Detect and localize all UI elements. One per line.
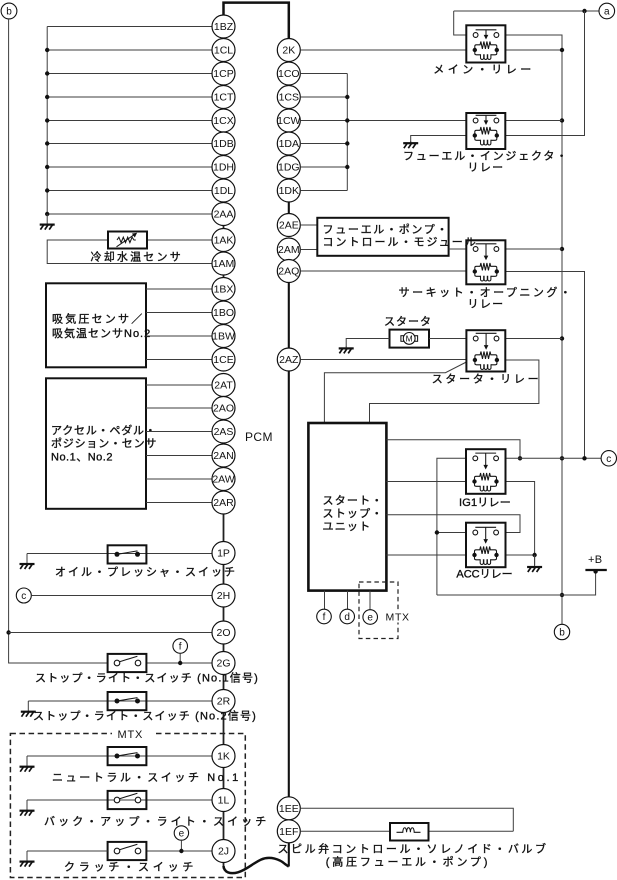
label 吸気温センサNo.2 (52, 326, 151, 340)
label フューエル・インジェクタ・ (403, 150, 569, 163)
svg-text:1DL: 1DL (214, 185, 233, 197)
wire sensor-ground row y=167 (47, 166, 212, 168)
wire intake sensor to pin y=359.5 (146, 359, 212, 361)
svg-text:M: M (406, 334, 413, 344)
wire main relay left contact feed from node a line (454, 11, 467, 35)
ground (neutral switch) (20, 756, 35, 772)
svg-text:2AA: 2AA (214, 209, 234, 221)
wire f stem (179, 653, 181, 663)
relay: fuel injector relay (466, 113, 505, 149)
svg-text:ユニット: ユニット (323, 521, 372, 533)
node 1BX (PCM pin) (212, 278, 235, 301)
svg-text:吸気温センサNo.2: 吸気温センサNo.2 (52, 326, 151, 340)
backup light switch (open) (108, 791, 147, 809)
svg-text:1AK: 1AK (214, 235, 234, 247)
wire c to 2H (31, 595, 212, 597)
svg-text:1DA: 1DA (279, 138, 299, 150)
wire 1DA row (300, 143, 347, 145)
junction dot e/2J (179, 849, 183, 853)
wire unit to IG1 contact feed (386, 440, 520, 459)
spill valve control solenoid valve box (390, 823, 429, 841)
node 2AO (PCM pin) (212, 397, 235, 420)
wire injector relay coil right up to a-line (505, 11, 584, 136)
relay: main relay (466, 25, 505, 62)
node 1DK (PCM pin) (277, 179, 300, 202)
node 2G (PCM pin) (212, 652, 235, 675)
svg-text:1DB: 1DB (213, 138, 233, 150)
wire sensor-ground row y=26.5 (47, 26, 212, 28)
node d (under unit) (340, 609, 355, 624)
ground (backup light switch) (20, 800, 35, 816)
wire accel sensor to pin y=455.5 (146, 455, 212, 457)
wire PCM left bus segment (223, 275, 225, 278)
wire 1AK row to coolant sensor (147, 239, 212, 241)
junction dot 1CO group (345, 165, 349, 169)
svg-text:1L: 1L (218, 795, 230, 807)
wire sensor-ground row y=73.5 (47, 73, 212, 75)
svg-text:ニュートラル・スイッチ No.1: ニュートラル・スイッチ No.1 (52, 771, 241, 784)
stop light switch No.1 (open) (108, 654, 147, 672)
MTX dashed enclosure (around e) (359, 582, 398, 639)
wire PCM left bus segment (223, 674, 225, 689)
wire PCM left bus segment (223, 862, 225, 868)
svg-text:オイル・プレッシャ・スイッチ: オイル・プレッシャ・スイッチ (55, 566, 237, 579)
node c (left) (16, 588, 31, 603)
svg-text:1DH: 1DH (213, 162, 234, 174)
svg-text:d: d (344, 612, 350, 623)
label MTX (under unit) (384, 610, 412, 624)
junction dot c-line x584 (582, 456, 586, 460)
svg-text:1CL: 1CL (214, 45, 233, 57)
wire sensor-ground row y=97 (47, 96, 212, 98)
label ストップ・ライト・スイッチ (No.1信号) (35, 672, 259, 685)
svg-text:1DK: 1DK (279, 185, 299, 197)
svg-text:2AZ: 2AZ (279, 354, 299, 366)
ground (IG1/ACC relays) (527, 555, 542, 572)
wire accel sensor to pin y=479 (146, 478, 212, 480)
label +B (588, 554, 602, 566)
junction dot ACC contact feed (435, 530, 439, 534)
node 1DB (PCM pin) (212, 132, 235, 155)
wire main relay right contact down the +B bus (505, 35, 562, 624)
stop light switch No.2 (closed) (108, 692, 147, 710)
label ユニット (323, 521, 372, 533)
wire clutch switch to ground (27, 850, 108, 852)
wire PCM right bus segment (288, 371, 290, 797)
svg-text:2AW: 2AW (212, 474, 234, 486)
neutral switch No.1 (closed) (108, 747, 147, 765)
coolant temp sensor (thermistor) box (108, 232, 147, 249)
label サーキット・オープニング・ (399, 285, 574, 299)
svg-text:MTX: MTX (118, 729, 144, 741)
node 2AA (PCM pin) (212, 203, 235, 226)
node 2H (PCM pin) (212, 584, 235, 607)
starter motor box (390, 330, 430, 348)
node 1BO (PCM pin) (212, 301, 235, 324)
node a (top-right) (599, 3, 615, 19)
svg-text:1CS: 1CS (279, 92, 299, 104)
svg-text:スタータ: スタータ (384, 315, 432, 328)
wire PCM right bus segment (288, 843, 290, 867)
wire IG1 right contact to node c (506, 457, 602, 459)
ground (starter motor) (339, 346, 354, 353)
MTX dashed enclosure (10, 734, 245, 878)
svg-text:2AR: 2AR (213, 497, 234, 509)
label 冷却水温センサ (91, 250, 183, 263)
svg-text:2O: 2O (216, 627, 230, 639)
svg-text:1K: 1K (217, 751, 230, 763)
label IG1リレー (459, 497, 511, 509)
svg-text:2G: 2G (216, 658, 230, 670)
node e (above clutch switch) (174, 826, 188, 840)
node 1CS (PCM pin) (277, 86, 300, 109)
wire 2AZ to starter relay coil (300, 359, 466, 361)
wire PCM left bus segment (223, 225, 225, 228)
wire 1CO group vertical (346, 74, 348, 191)
svg-text:e: e (367, 613, 373, 624)
node 1CE (PCM pin) (212, 348, 235, 371)
svg-text:スタート・: スタート・ (323, 494, 384, 507)
junction dot a-line / injector branch (582, 9, 586, 13)
wire PCM left bus segment (223, 712, 225, 744)
node 2O (PCM pin) (212, 621, 235, 644)
wire 1DG row (300, 166, 347, 168)
label オイル・プレッシャ・スイッチ (55, 566, 237, 579)
wire stop light switch No.2 row (28, 700, 212, 702)
node 1EE (PCM pin) (277, 797, 300, 820)
node 2K (PCM pin) (277, 39, 300, 62)
label MTX (bottom-left box) (112, 728, 154, 742)
relay: circuit opening relay (466, 240, 505, 284)
wire ACC coil right to ground bus (506, 554, 535, 556)
label 吸気圧センサ／ (52, 311, 144, 325)
svg-text:1EF: 1EF (279, 826, 298, 838)
junction dot on +B bus (560, 593, 564, 597)
svg-text:2R: 2R (217, 696, 231, 708)
svg-text:1CO: 1CO (278, 68, 300, 80)
wire f stem under unit (324, 591, 326, 610)
relay: ACC relay (466, 523, 506, 568)
wire solenoid to return (429, 830, 514, 832)
label ストップ・ライト・スイッチ (No.2信号) (33, 710, 257, 723)
wire sensor-ground row y=120.5 (47, 120, 212, 122)
node b (top-left) (1, 3, 17, 19)
junction dot (45, 71, 49, 75)
relay: IG1 relay (466, 449, 506, 494)
svg-text:1EE: 1EE (279, 803, 299, 815)
junction dot 1CO group (345, 95, 349, 99)
junction dot (45, 188, 49, 192)
node 1L (PCM pin) (212, 789, 235, 812)
label ACCリレー (456, 568, 512, 580)
svg-text:リレー: リレー (468, 162, 505, 174)
node 1AK (PCM pin) (212, 229, 235, 252)
wire PCM left bus segment (223, 767, 225, 788)
wire from node b down the left edge (9, 19, 108, 663)
svg-text:ACCリレー: ACCリレー (456, 568, 512, 580)
svg-text:1CP: 1CP (213, 68, 233, 80)
svg-text:2J: 2J (218, 846, 229, 858)
intake pressure / intake temp sensor No.2 box (46, 283, 146, 367)
wire unit to IG1 coil (386, 481, 466, 483)
svg-text:2AE: 2AE (279, 220, 299, 232)
node 1CL (PCM pin) (212, 39, 235, 62)
label メイン・リレー (433, 64, 535, 76)
svg-text:スタータ・リレー: スタータ・リレー (432, 373, 542, 386)
wire 2AM to module (300, 249, 317, 251)
svg-text:吸気圧センサ／: 吸気圧センサ／ (52, 311, 144, 325)
node f (under unit) (317, 609, 332, 624)
svg-text:ストップ・: ストップ・ (323, 507, 384, 520)
label コントロール・モジュール (323, 237, 478, 249)
label ニュートラル・スイッチ No.1 (52, 771, 241, 784)
wire PCM internal continuation curve (224, 858, 289, 873)
wire PCM left bus segment (223, 250, 225, 253)
wire 2O row (9, 632, 212, 634)
wire PCM right bus segment (288, 282, 290, 348)
svg-text:c: c (606, 454, 611, 465)
node 1CP (PCM pin) (212, 62, 235, 85)
wire 1CW row to injector relay (300, 120, 466, 122)
junction dot on +B bus (560, 118, 564, 122)
wire 1EE to solenoid return (300, 808, 513, 831)
clutch switch (open) (108, 842, 147, 860)
node 2AM (PCM pin) (277, 238, 300, 261)
oil pressure switch (closed) (108, 545, 147, 563)
svg-text:1CW: 1CW (277, 115, 300, 127)
svg-text:b: b (6, 7, 12, 18)
wire 1DK row (300, 190, 347, 192)
svg-text:1AM: 1AM (213, 258, 235, 270)
wire intake sensor to pin y=336 (146, 335, 212, 337)
node c (right) (601, 451, 616, 466)
wire starter relay coil right to unit top (370, 360, 539, 423)
wire PCM left bus segment (223, 564, 225, 584)
wire PCM right bus segment (288, 202, 290, 214)
wire accel sensor to pin y=502.5 (146, 502, 212, 504)
svg-text:2AS: 2AS (214, 426, 234, 438)
junction dot (45, 95, 49, 99)
svg-text:IG1リレー: IG1リレー (459, 497, 511, 509)
svg-text:1BX: 1BX (214, 284, 234, 296)
svg-text:スピル弁コントロール・ソレノイド・バルブ: スピル弁コントロール・ソレノイド・バルブ (278, 841, 549, 855)
node 1BW (PCM pin) (212, 325, 235, 348)
wire PCM left bus segment (223, 644, 225, 652)
accelerator pedal position sensor box (46, 378, 146, 509)
node 1CX (PCM pin) (212, 109, 235, 132)
svg-text:1CT: 1CT (214, 92, 234, 104)
label ポジション・センサ (51, 437, 157, 450)
svg-text:f: f (323, 612, 326, 623)
node 2AZ (PCM pin) (277, 348, 300, 371)
node 1DA (PCM pin) (277, 132, 300, 155)
junction dot 1CO group (345, 118, 349, 122)
wire 2K to main relay coil (300, 49, 466, 51)
wire accel sensor to pin y=431.5 (146, 431, 212, 433)
label バック・アップ・ライト・スイッチ (44, 815, 269, 828)
label リレー(circuit opening) (468, 299, 505, 311)
label クラッチ・スイッチ (64, 860, 197, 873)
svg-text:2AM: 2AM (278, 244, 300, 256)
wire left feeder vertical x=47 (46, 27, 48, 215)
label スタータ (384, 315, 432, 328)
junction dot on +B bus (560, 456, 564, 460)
junction dot (45, 48, 49, 52)
svg-text:1DG: 1DG (278, 162, 300, 174)
junction dot ACC/IG1 ground bus (532, 553, 536, 557)
node 2AN (PCM pin) (212, 444, 235, 467)
wire 1CS row (300, 96, 347, 98)
svg-text:フューエル・ポンプ・: フューエル・ポンプ・ (323, 223, 450, 236)
wire 2AQ to circuit opening relay coil (300, 270, 466, 272)
wire module to circuit opening relay contact (449, 248, 467, 250)
junction dot (45, 141, 49, 145)
junction dot (45, 165, 49, 169)
wire starter motor to starter relay contact (429, 338, 466, 340)
svg-text:MTX: MTX (386, 612, 410, 624)
wire IG1 coil right to ground bus (506, 482, 535, 566)
label PCM (245, 430, 273, 444)
node 1EF (PCM pin) (277, 820, 300, 843)
label (高圧フューエル・ポンプ) (326, 854, 490, 868)
junction dot f/2G (178, 661, 182, 665)
node 2AR (PCM pin) (212, 491, 235, 514)
svg-text:a: a (604, 7, 610, 18)
wire 1EF to solenoid (300, 830, 390, 832)
wire PCM left bus segment (223, 607, 225, 621)
svg-text:1BO: 1BO (213, 307, 234, 319)
wire starter relay contact right to bus (505, 338, 562, 340)
svg-text:リレー: リレー (468, 299, 505, 311)
wire unit to ACC contact feed (386, 515, 520, 533)
wire intake sensor to pin y=312.5 (146, 312, 212, 314)
svg-text:2AN: 2AN (213, 450, 233, 462)
wire sensor-ground row y=214 (47, 213, 212, 215)
wire 2AE to module (300, 224, 317, 226)
svg-text:No.1、No.2: No.1、No.2 (51, 452, 113, 464)
node 2R (PCM pin) (212, 690, 235, 713)
ground (clutch switch) (20, 851, 35, 867)
svg-text:f: f (179, 642, 182, 653)
wire PCM left bus segment (223, 514, 225, 542)
node 2AS (PCM pin) (212, 420, 235, 443)
node 1CO (PCM pin) (277, 62, 300, 85)
wire sensor-ground row y=50 (47, 49, 212, 51)
wire injector relay coil left to ground (411, 136, 467, 143)
wire starter relay coil to start-stop unit (left path) (324, 362, 466, 423)
node 1DH (PCM pin) (212, 156, 235, 179)
node 2AQ (PCM pin) (277, 260, 300, 283)
ground (stop light switch No.2) (21, 701, 36, 717)
wire ACC left contact to feed line (437, 532, 466, 534)
node 1CW (PCM pin) (277, 109, 300, 132)
wire sensor-ground row y=190.5 (47, 190, 212, 192)
node e (under unit) (363, 610, 378, 625)
svg-text:クラッチ・スイッチ: クラッチ・スイッチ (64, 860, 197, 873)
wire intake sensor to pin y=289 (146, 288, 212, 290)
node f (above stop light switch) (173, 639, 188, 654)
node 1DG (PCM pin) (277, 156, 300, 179)
wire circuit opening relay contact right to bus (505, 248, 562, 250)
svg-text:2AT: 2AT (214, 380, 233, 392)
node 1CT (PCM pin) (212, 86, 235, 109)
svg-text:2K: 2K (282, 45, 295, 57)
wire 1CO row (300, 73, 347, 75)
relay: starter relay (466, 330, 505, 371)
start-stop unit box (308, 423, 386, 591)
junction dot IG1 contact feed (518, 456, 522, 460)
wire circuit opening relay coil right to c-line (505, 272, 584, 459)
wire main relay coil right to bus (505, 49, 562, 51)
node 2AW (PCM pin) (212, 468, 235, 491)
svg-text:b: b (559, 628, 565, 639)
wire d stem under unit (347, 591, 349, 610)
svg-text:2AQ: 2AQ (278, 266, 299, 278)
label アクセル・ペダル・ (51, 423, 157, 437)
node 2J (PCM pin) (212, 840, 235, 863)
label フューエル・ポンプ・ (323, 223, 450, 236)
wire starter motor to ground (346, 339, 389, 347)
ground (oil pressure switch) (20, 554, 35, 570)
junction dot 1CO group (345, 141, 349, 145)
svg-text:1CE: 1CE (213, 354, 233, 366)
junction dot +B stem (593, 569, 597, 573)
wire accel sensor to pin y=408 (146, 407, 212, 409)
wire oil pressure switch row (27, 553, 212, 555)
svg-text:1BW: 1BW (212, 331, 235, 343)
svg-text:c: c (21, 591, 26, 602)
label リレー(injector) (468, 162, 505, 174)
svg-text:(高圧フューエル・ポンプ): (高圧フューエル・ポンプ) (326, 854, 490, 868)
junction dot (45, 118, 49, 122)
svg-text:フューエル・インジェクタ・: フューエル・インジェクタ・ (403, 150, 569, 163)
label ストップ・ (323, 507, 384, 520)
label スタート・ (323, 494, 384, 507)
svg-text:2H: 2H (217, 590, 230, 602)
node 2AE (PCM pin) (277, 214, 300, 237)
junction dot on +B bus (560, 336, 564, 340)
wire unit to ACC coil (386, 554, 466, 556)
svg-text:冷却水温センサ: 冷却水温センサ (91, 250, 183, 263)
node 1P (PCM pin) (212, 542, 235, 565)
ground (injector relay) (403, 141, 418, 148)
junction dot at 2O row on b line (6, 630, 10, 634)
label No.1、No.2 (51, 452, 113, 464)
wire IG1 left contact feed line (437, 458, 466, 595)
label スタータ・リレー (432, 373, 542, 386)
label スピル弁コントロール・ソレノイド・バルブ (278, 841, 549, 855)
wire PCM left bus segment (223, 811, 225, 839)
svg-text:アクセル・ペダル・: アクセル・ペダル・ (51, 423, 157, 437)
svg-text:ポジション・センサ: ポジション・センサ (51, 437, 157, 450)
svg-text:サーキット・オープニング・: サーキット・オープニング・ (399, 285, 574, 299)
wire backup light switch row (27, 799, 212, 801)
wire accel sensor to pin y=385 (146, 384, 212, 386)
svg-text:PCM: PCM (245, 430, 273, 444)
svg-text:メイン・リレー: メイン・リレー (433, 64, 535, 76)
wire PCM top bracket (224, 3, 289, 39)
svg-text:2AO: 2AO (213, 403, 234, 415)
svg-text:1CX: 1CX (213, 115, 233, 127)
node 1BZ (PCM pin) (212, 15, 235, 38)
svg-text:バック・アップ・ライト・スイッチ: バック・アップ・ライト・スイッチ (44, 815, 269, 828)
junction dot on +B bus (560, 247, 564, 251)
wire e stem under unit (369, 591, 371, 610)
node b (bottom-right) (554, 624, 569, 639)
node 2AT (PCM pin) (212, 374, 235, 397)
node 1DL (PCM pin) (212, 179, 235, 202)
ground (2AA rows) (40, 214, 55, 230)
